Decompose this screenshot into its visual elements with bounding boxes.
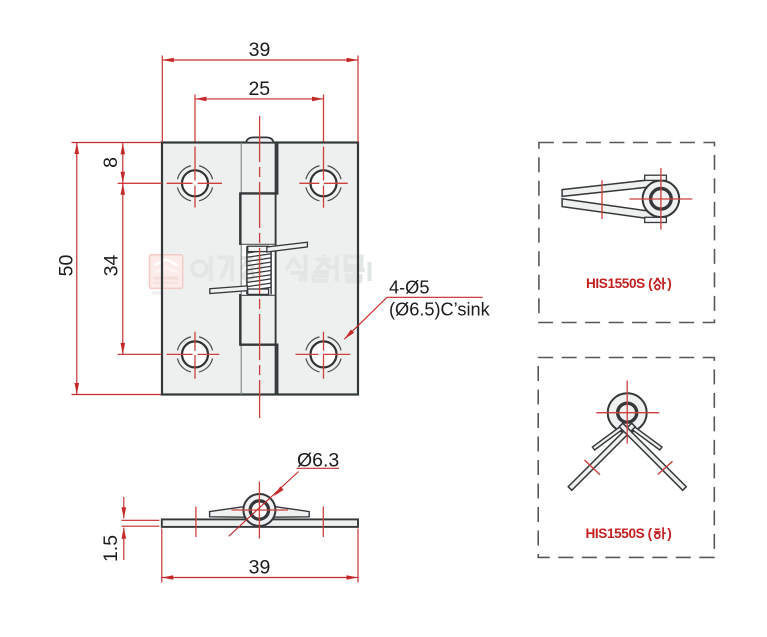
right leaf knuckle edge (bottom) — [277, 344, 279, 395]
dimension 25 — [195, 98, 324, 100]
left leaf knuckle thick edge upper — [239, 192, 241, 245]
svg-text:50: 50 — [56, 255, 78, 277]
spring short arm right (bottom box) — [631, 426, 662, 450]
svg-text:HIS1550S (: HIS1550S ( — [586, 276, 653, 291]
knuckle step line lower — [240, 344, 279, 346]
screw hole bottom-left — [177, 337, 212, 372]
leader 4-Ø5 — [344, 297, 482, 339]
knuckle step line upper — [240, 192, 279, 194]
coil turns — [247, 250, 271, 291]
dimension 34 — [122, 183, 124, 354]
svg-text:): ) — [667, 276, 672, 291]
knuckle column right edge — [275, 143, 277, 395]
node crosshair hole bottom-left — [118, 353, 220, 355]
dimension 50 left — [72, 143, 162, 395]
side view: left spring wing — [210, 506, 246, 517]
side view: hole position marks — [195, 507, 197, 538]
dimension 1.5 — [121, 497, 159, 560]
hinge plate outline — [162, 143, 358, 395]
node crosshair hole top-right — [299, 182, 348, 184]
node crosshair hole bottom-right — [296, 353, 351, 355]
node centerline pin column — [259, 116, 261, 418]
svg-text:Ø6.3: Ø6.3 — [297, 450, 339, 472]
dashed frame top (spring upper view) — [539, 143, 715, 323]
side view: right spring wing — [273, 506, 309, 517]
svg-text:25: 25 — [248, 78, 270, 100]
spring loop bore (bottom box) — [618, 403, 637, 422]
screw hole top-right — [306, 166, 341, 201]
side view: hinge leaf plate — [162, 519, 358, 527]
dimension 8 — [122, 143, 124, 183]
svg-text:1.5: 1.5 — [100, 535, 122, 562]
side view: knuckle barrel outer — [243, 494, 275, 526]
spring window (white) — [242, 244, 275, 295]
centerlines of holes and pin — [118, 95, 351, 419]
spring coil body (top box) — [643, 181, 680, 218]
red section tick (top box) — [601, 180, 603, 219]
dashed frame bottom (spring front view) — [538, 358, 714, 558]
svg-text:8: 8 — [100, 157, 122, 168]
spring loop (bottom box) — [608, 393, 647, 432]
red section tick right (bottom box) — [658, 461, 673, 474]
coil bottom cap — [248, 289, 269, 294]
spring window edges — [241, 243, 275, 245]
leader Ø6.3 — [297, 467, 339, 469]
svg-text:4-Ø5: 4-Ø5 — [389, 278, 429, 298]
hinge pin head — [246, 137, 273, 142]
hinge plate (front view) fill — [162, 143, 358, 395]
spring wire end tab bottom — [645, 217, 667, 222]
svg-text:): ) — [667, 526, 672, 541]
spring upper arm — [267, 242, 308, 252]
crosshair (top box) — [629, 198, 692, 200]
dimension 39 bottom — [162, 529, 358, 583]
right leaf knuckle edge (top) — [277, 143, 279, 195]
label HIS1550S (하) — [586, 526, 672, 541]
label HIS1550S (상) — [586, 276, 672, 291]
coil body sides — [246, 246, 248, 294]
watermark korean text 이기장식철물 — [192, 255, 369, 282]
svg-text:34: 34 — [101, 255, 123, 277]
coil top cap — [248, 246, 269, 251]
watermark seal stamp — [150, 255, 183, 295]
red section tick left (bottom box) — [585, 460, 601, 475]
dimension 39 top — [162, 56, 358, 143]
spring lower arm — [210, 286, 248, 294]
side view: pin bore — [250, 501, 268, 519]
svg-text:39: 39 — [249, 557, 271, 579]
spring upper arm (top box) — [562, 179, 655, 196]
crosshair (bottom box) — [626, 381, 628, 444]
node crosshair hole top-left — [118, 182, 222, 184]
svg-text:HIS1550S (: HIS1550S ( — [586, 526, 653, 541]
svg-text:(Ø6.5)C’sink: (Ø6.5)C’sink — [389, 300, 491, 320]
spring short arm left (bottom box) — [592, 426, 623, 450]
spring wire end tab top — [645, 175, 667, 180]
spring long leg left (bottom box) — [568, 423, 635, 490]
screw hole bottom-right — [306, 337, 341, 372]
knuckle column left thin line — [240, 143, 242, 395]
screw hole top-left — [177, 166, 212, 201]
spring long leg right (bottom box) — [619, 423, 686, 490]
side view: barrel crosshair — [232, 509, 289, 511]
left leaf knuckle thick edge lower — [239, 294, 241, 346]
spring lower arm (top box) — [562, 199, 655, 220]
svg-text:39: 39 — [249, 39, 271, 61]
